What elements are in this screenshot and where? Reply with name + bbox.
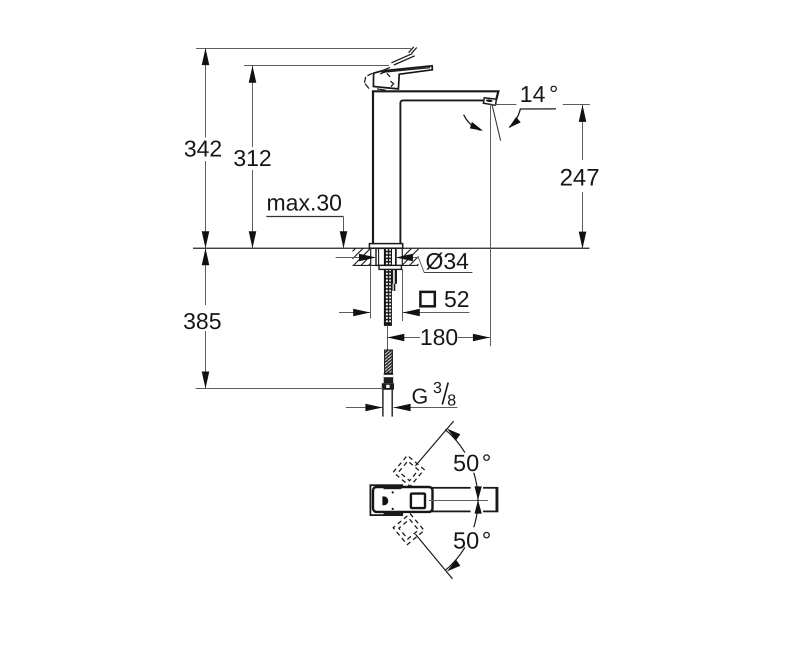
svg-text:385: 385 (183, 308, 221, 334)
svg-text:14: 14 (520, 81, 546, 107)
svg-text:247: 247 (560, 164, 600, 191)
svg-text:50: 50 (453, 528, 479, 554)
svg-text:180: 180 (420, 324, 458, 350)
svg-text:8: 8 (447, 392, 456, 409)
svg-text:Ø34: Ø34 (426, 248, 470, 274)
svg-text:°: ° (549, 81, 558, 107)
svg-text:312: 312 (233, 145, 271, 171)
svg-text:342: 342 (184, 136, 222, 162)
svg-text:52: 52 (444, 286, 470, 312)
svg-text:G: G (412, 385, 429, 409)
svg-text:°: ° (482, 450, 492, 477)
svg-text:°: ° (482, 528, 492, 555)
svg-text:3: 3 (433, 380, 442, 397)
svg-text:50: 50 (453, 450, 479, 476)
svg-text:max.30: max.30 (267, 190, 342, 216)
